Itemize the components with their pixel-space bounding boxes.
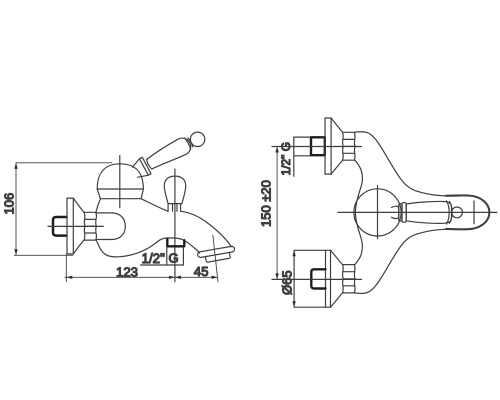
arrow 150 top (275, 147, 278, 153)
G box (167, 247, 184, 265)
svg-text:1/2": 1/2" (142, 251, 166, 266)
handle collar rings (front) (399, 204, 402, 221)
arrow 45 right (212, 276, 218, 279)
body outline right view: top sweep (354, 132, 457, 196)
svg-text:123: 123 (116, 264, 138, 279)
escutcheon face plate left view (67, 198, 73, 254)
top escutcheon cone (331, 118, 342, 174)
cartridge housing stadium (96, 213, 126, 240)
ribbed nut left view (84, 212, 96, 240)
bottom escutcheon inner edge line (325, 250, 327, 307)
underline of 1/2" (141, 264, 167, 266)
center line through knob and outlet (174, 169, 176, 282)
handle grip (front) (406, 201, 451, 223)
arrow double middle (169, 276, 175, 279)
body bottom sweep over outlet hump to aerator (96, 238, 200, 257)
handle ball (front) (452, 207, 463, 218)
dim O65 arrows (292, 250, 295, 256)
spout top curve from stem to aerator (181, 211, 232, 247)
bottom escutcheon (section rectangle) (294, 250, 330, 307)
body outline right view: left waist (355, 160, 363, 264)
circle vertical center line (377, 186, 379, 239)
handle neck (left view) (132, 159, 148, 178)
center line through dome (119, 156, 121, 208)
wire: dim 106 bottom extension line (14, 254, 73, 256)
arrow 123 left (66, 276, 72, 279)
aerator cup (205, 252, 230, 262)
svg-text:1/2" G: 1/2" G (279, 142, 293, 176)
spout tip stadium (front) (446, 195, 489, 229)
body left edge above cartridge (96, 199, 101, 213)
bottom ribbed nut (343, 265, 355, 293)
wire: dim 106 top extension line (16, 162, 112, 164)
extension line left (wall plane) (65, 254, 67, 282)
handle neck (front) (392, 206, 399, 218)
top nut (thick rect) (311, 137, 325, 155)
arrow: 106 top (14, 163, 17, 169)
escutcheon cone left view (73, 198, 84, 212)
svg-text:150 ±20: 150 ±20 (259, 180, 274, 227)
dimension line 106 vertical (15, 163, 17, 256)
bottom pipe in section (thick) (311, 269, 325, 288)
extension line right (spout tip, slanted) (213, 235, 218, 281)
spout tip vertical mark (473, 201, 475, 224)
top ribbed nut (343, 132, 355, 160)
top connection center line (272, 146, 362, 148)
handle grip (147, 138, 191, 169)
arrow 150 bottom (275, 273, 278, 279)
top escutcheon face (325, 118, 331, 174)
label underline (vertical) (293, 156, 295, 177)
arrow: 106 bottom (14, 249, 17, 255)
dome base chord (97, 188, 143, 190)
svg-text:106: 106 (2, 193, 17, 215)
body outline with dome, spout (97, 164, 143, 189)
top supply pipe (thin rect) (294, 137, 311, 156)
svg-text:45: 45 (194, 264, 209, 279)
supply pipe stub (thick) left view (53, 217, 67, 236)
body outline right view: bottom sweep (354, 229, 457, 293)
bottom escutcheon cone (331, 250, 343, 307)
svg-text:G: G (169, 251, 179, 266)
outlet fitting (thick U) (167, 239, 184, 246)
handle tip rings (front) (447, 201, 453, 224)
diverter knob (teardrop) (164, 176, 185, 204)
center line of wall connection (48, 225, 103, 227)
handle collar rings (140, 157, 152, 175)
dim 150 +-20 line (276, 147, 278, 280)
handle ball (190, 132, 204, 146)
collar under dome (97, 189, 143, 199)
main horizontal center line (338, 211, 497, 213)
central circle (dome from front) (354, 189, 401, 236)
body right edge from collar to knob stem (141, 199, 168, 212)
dim 123/45 bottom dimension line (65, 276, 218, 278)
svg-text:Ø65: Ø65 (280, 270, 295, 295)
bottom connection center line (272, 278, 362, 280)
knob stem (168, 204, 181, 212)
handle tip rings (185, 138, 193, 150)
aerator band (198, 246, 235, 257)
